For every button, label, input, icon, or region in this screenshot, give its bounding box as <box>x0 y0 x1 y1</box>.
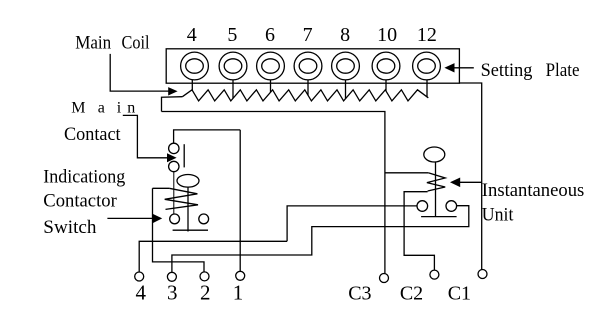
svg-text:Main: Main <box>71 99 135 116</box>
tap lead 8 <box>345 80 347 99</box>
terminal 1 circle <box>236 271 245 280</box>
svg-text:C2: C2 <box>400 283 423 305</box>
leader: Instantaneous Unit <box>459 181 482 183</box>
tap hole 12 <box>413 52 441 80</box>
wire: terminal 3 to instantaneous right contact <box>172 206 469 273</box>
wire: ICS coil to terminal 2 <box>153 188 205 271</box>
svg-text:12: 12 <box>417 24 437 46</box>
terminal 2 circle <box>200 272 209 281</box>
tap hole 10 <box>372 52 400 80</box>
instantaneous coil zigzag <box>427 173 445 191</box>
svg-text:7: 7 <box>303 24 313 46</box>
svg-text:6: 6 <box>265 24 275 46</box>
main contact upper circle <box>169 143 179 153</box>
svg-text:10: 10 <box>377 24 397 46</box>
tap hole 5 <box>219 52 247 80</box>
ICS contact left circle <box>170 214 180 224</box>
leader: Main Contact <box>123 115 168 157</box>
svg-text:Instantaneous: Instantaneous <box>482 180 585 201</box>
wire: riser to instantaneous left contact <box>287 206 417 241</box>
setting plate box <box>166 49 459 83</box>
tap hole 4 <box>181 52 209 80</box>
svg-text:SettingPlate: SettingPlate <box>481 60 580 81</box>
ICS plunger ellipse <box>177 175 199 188</box>
tap hole 7 <box>294 52 322 80</box>
instantaneous contact bar <box>421 216 457 218</box>
wire: main contact box top <box>174 130 241 143</box>
main contact stationary bar <box>183 144 185 167</box>
main contact lower circle <box>169 161 179 171</box>
instantaneous contact right circle <box>446 201 457 212</box>
svg-text:5: 5 <box>227 24 237 46</box>
wire: coil left end <box>162 97 183 112</box>
svg-text:Contactor: Contactor <box>43 191 117 212</box>
arrowhead setting plate <box>444 63 454 72</box>
svg-text:Indicationg: Indicationg <box>43 167 125 188</box>
leader: Setting Plate <box>454 67 474 69</box>
wire: instantaneous coil top lead <box>385 172 428 174</box>
svg-text:1: 1 <box>233 281 244 305</box>
terminal 4 circle <box>135 272 144 281</box>
wire: terminal 4 riser <box>139 241 287 272</box>
tap lead 10 <box>385 80 387 91</box>
svg-text:8: 8 <box>340 24 350 46</box>
ICS center post <box>187 187 189 231</box>
svg-text:C3: C3 <box>348 283 371 305</box>
tap lead 7 <box>307 80 309 95</box>
tap lead 12 <box>426 80 428 97</box>
arrowhead main contact <box>167 153 177 162</box>
wire: coil bottom tap across to C3 branch <box>162 112 385 274</box>
ICS contact right circle <box>199 214 209 224</box>
terminal C2 circle <box>430 270 439 279</box>
main coil zigzag winding <box>182 90 428 101</box>
svg-text:4: 4 <box>187 24 197 46</box>
leader: Indicating Contactor Switch <box>107 217 153 219</box>
leader: Main Coil <box>110 54 169 91</box>
svg-text:Unit: Unit <box>482 205 514 226</box>
instantaneous contact left circle <box>417 201 428 212</box>
tap lead 6 <box>270 80 272 92</box>
instantaneous plunger ellipse <box>424 147 445 162</box>
wire: instantaneous coil to C2 <box>404 192 434 270</box>
terminal C1 circle <box>478 270 487 279</box>
svg-text:3: 3 <box>167 281 178 305</box>
svg-text:Switch: Switch <box>43 217 97 238</box>
svg-text:4: 4 <box>136 281 147 305</box>
wire: right vertical to terminal 1 <box>239 130 241 271</box>
svg-text:Contact: Contact <box>64 124 121 145</box>
terminal C3 circle <box>380 274 389 283</box>
wire: plate corner down to C1 <box>459 83 482 270</box>
svg-text:C1: C1 <box>448 283 471 305</box>
instantaneous center post <box>435 162 437 217</box>
terminal 3 circle <box>167 272 176 281</box>
wire: main contact down to ICS contact <box>173 172 175 214</box>
svg-text:MainCoil: MainCoil <box>75 32 149 53</box>
wire: ICS coil left lead <box>153 187 170 189</box>
arrowhead main coil <box>168 87 177 95</box>
arrowhead switch <box>153 214 163 224</box>
svg-text:2: 2 <box>200 281 211 305</box>
ICS coil zigzag <box>165 188 198 209</box>
tap hole 8 <box>332 52 360 80</box>
tap lead 5 <box>232 80 234 98</box>
ICS contact bar <box>173 229 208 231</box>
arrowhead instantaneous <box>450 178 460 188</box>
tap hole 6 <box>257 52 285 80</box>
tap lead 4 <box>191 80 193 90</box>
